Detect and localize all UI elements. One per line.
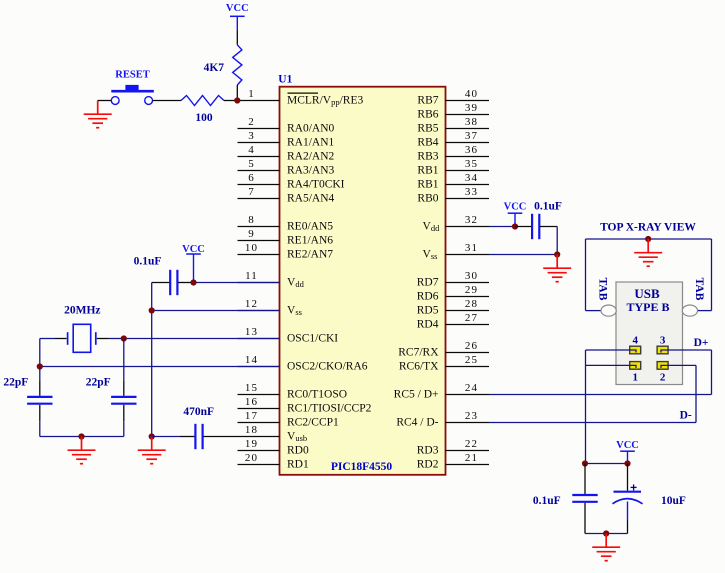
svg-text:RC6/TX: RC6/TX	[399, 361, 439, 373]
svg-text:RB7: RB7	[417, 95, 438, 107]
USB pad pin 3	[657, 346, 668, 354]
svg-text:4: 4	[632, 335, 638, 347]
svg-text:RA2/AN2: RA2/AN2	[287, 151, 335, 163]
wire crystal right to node OSC1	[109, 338, 124, 340]
wire pin 25 stub	[446, 366, 490, 368]
wire pin 20 stub	[238, 464, 280, 466]
wire pin 31 stub	[446, 254, 490, 256]
svg-text:RA5/AN4: RA5/AN4	[287, 193, 335, 205]
svg-text:20MHz: 20MHz	[64, 305, 100, 317]
wire node OSC1 to pin 13	[124, 338, 280, 340]
svg-text:RC7/RX: RC7/RX	[398, 347, 439, 359]
wire crystal right pin	[97, 338, 109, 340]
wire corner to C 0.1uF	[152, 282, 170, 284]
svg-text:30: 30	[465, 270, 478, 282]
svg-text:16: 16	[245, 396, 258, 408]
svg-text:USB: USB	[634, 286, 660, 301]
svg-text:VCC: VCC	[616, 440, 639, 451]
pad wire hooks	[630, 350, 668, 368]
svg-text:RC1/TIOSI/CCP2: RC1/TIOSI/CCP2	[287, 403, 372, 415]
svg-text:8: 8	[248, 214, 255, 226]
svg-text:1: 1	[248, 88, 255, 100]
svg-text:9: 9	[248, 228, 255, 240]
wire R 100 to node MCLR	[224, 100, 238, 102]
svg-text:Vdd: Vdd	[287, 277, 305, 290]
wire crystal left	[40, 338, 55, 340]
svg-text:29: 29	[465, 284, 478, 296]
wire C1 bottom pin	[39, 405, 41, 421]
wire pin 17 stub	[238, 422, 280, 424]
IC U1 PIC18F4550 body	[280, 87, 446, 475]
wire C2 to ground rail	[123, 421, 125, 436]
junction shield ground	[645, 236, 651, 242]
wire pin 26 stub	[446, 352, 490, 354]
junction node OSC2	[37, 363, 43, 369]
wire pin 33 stub	[446, 198, 490, 200]
junction Vss rail ground	[149, 433, 155, 439]
wire corner down to Vss	[556, 227, 558, 255]
wire pin 31 Vss	[489, 254, 557, 256]
wire C 0.1uF top pin	[584, 464, 586, 495]
svg-text:OSC2/CKO/RA6: OSC2/CKO/RA6	[287, 361, 368, 373]
svg-text:RA0/AN0: RA0/AN0	[287, 123, 335, 135]
svg-text:3: 3	[248, 130, 255, 142]
svg-text:RC4 / D-: RC4 / D-	[396, 417, 438, 429]
wire pin 34 stub	[446, 184, 490, 186]
svg-text:RE1/AN6: RE1/AN6	[287, 235, 333, 247]
svg-text:RC2/CCP1: RC2/CCP1	[287, 417, 339, 429]
wire pin 29 stub	[446, 296, 490, 298]
ground (reset switch)	[84, 101, 112, 128]
wire C 470nF to pin 18 Vusb	[203, 436, 237, 438]
junction node MCLR pin 1	[234, 97, 240, 103]
wire pin 37 stub	[446, 142, 490, 144]
svg-text:RB4: RB4	[417, 137, 438, 149]
wire pin 9 stub	[238, 240, 280, 242]
svg-text:4: 4	[248, 144, 255, 156]
svg-text:RB1: RB1	[417, 165, 438, 177]
svg-text:1: 1	[632, 371, 638, 383]
svg-text:22pF: 22pF	[86, 376, 111, 388]
svg-text:40: 40	[465, 88, 478, 100]
TAB oval left	[601, 305, 616, 316]
ground (USB shield)	[634, 239, 662, 266]
wire pin 32 to VCC node	[489, 226, 515, 228]
svg-text:D+: D+	[694, 337, 709, 349]
svg-text:Vdd: Vdd	[423, 221, 441, 234]
wire pin 19 stub	[238, 450, 280, 452]
wire pin 1 stub	[238, 100, 280, 102]
wire crystal left pin	[55, 338, 67, 340]
svg-text:RB1: RB1	[417, 179, 438, 191]
wire pin 35 stub	[446, 170, 490, 172]
wire net D+ to pad 3	[668, 349, 712, 351]
wire net D- vertical	[695, 365, 697, 422]
svg-text:27: 27	[465, 312, 478, 324]
svg-text:RB6: RB6	[417, 109, 438, 121]
svg-text:20: 20	[245, 452, 258, 464]
svg-text:4K7: 4K7	[204, 62, 225, 74]
svg-text:37: 37	[465, 130, 478, 142]
wire C2 bottom pin	[123, 405, 125, 421]
svg-text:Vss: Vss	[423, 249, 438, 262]
svg-text:RB5: RB5	[417, 123, 438, 135]
wire C2 top pin	[123, 380, 125, 396]
ground (Vss rail)	[138, 437, 166, 464]
wire C to corner	[540, 226, 557, 228]
junction node OSC1	[121, 335, 127, 341]
wire Vss rail to C 470nF	[152, 436, 180, 438]
svg-text:2: 2	[660, 371, 666, 383]
junction Vss pin31	[554, 251, 560, 257]
wire net D+ horizontal	[489, 394, 712, 396]
resistor R 100	[181, 96, 224, 106]
svg-text:RC0/T1OSO: RC0/T1OSO	[287, 389, 347, 401]
wire pin 38 stub	[446, 128, 490, 130]
svg-text:TAB: TAB	[693, 278, 705, 301]
svg-text:RD5: RD5	[417, 305, 439, 317]
svg-text:VCC: VCC	[226, 3, 249, 14]
plus sign of 10uF	[631, 484, 637, 490]
svg-text:U1: U1	[278, 74, 292, 86]
junction VCC rail left	[582, 460, 588, 466]
wire pin 6 stub	[238, 184, 280, 186]
wire pin 40 stub	[446, 100, 490, 102]
svg-text:32: 32	[465, 214, 478, 226]
svg-text:TOP X-RAY VIEW: TOP X-RAY VIEW	[600, 222, 696, 234]
svg-text:RA1/AN1: RA1/AN1	[287, 137, 335, 149]
wire pin 10 stub	[238, 254, 280, 256]
wire C1 to ground rail	[39, 421, 41, 436]
svg-text:RD2: RD2	[417, 459, 439, 471]
wire pin 13 stub	[238, 338, 280, 340]
svg-text:15: 15	[245, 382, 258, 394]
MCLR overline	[288, 92, 319, 94]
resistor R 4K7	[233, 45, 242, 85]
svg-text:VCC: VCC	[182, 244, 205, 255]
svg-text:RE0/AN5: RE0/AN5	[287, 221, 333, 233]
ground (crystal)	[68, 437, 96, 464]
power flag VCC (pin 32)	[504, 202, 527, 227]
wire pad 1 to left rail	[586, 364, 630, 366]
wire C1 top pin	[39, 380, 41, 396]
svg-text:MCLR/Vpp/RE3: MCLR/Vpp/RE3	[287, 95, 363, 108]
svg-text:100: 100	[195, 112, 213, 124]
wire USB shield top	[586, 238, 712, 240]
USB connector J1 body	[616, 282, 683, 385]
svg-text:26: 26	[465, 340, 478, 352]
junction VCC/C/pin11	[190, 279, 196, 285]
wire VCC rail	[585, 463, 628, 465]
wire to left TAB	[586, 310, 602, 312]
wire pin 7 stub	[238, 198, 280, 200]
capacitor C 0.1uF (USB power)	[572, 495, 597, 502]
wire net D- horizontal	[489, 422, 696, 424]
power flag VCC (USB power)	[616, 440, 639, 463]
wire node OSC2 to pin 14	[40, 366, 280, 368]
svg-text:RB0: RB0	[417, 193, 438, 205]
svg-text:39: 39	[465, 102, 478, 114]
svg-text:RE2/AN7: RE2/AN7	[287, 249, 333, 261]
wire pin 8 stub	[238, 226, 280, 228]
svg-text:14: 14	[245, 354, 258, 366]
wire net D+ vertical	[711, 350, 713, 395]
wire pin 14 stub	[238, 366, 280, 368]
wire to right TAB	[697, 310, 712, 312]
svg-text:25: 25	[465, 354, 478, 366]
svg-text:RD4: RD4	[417, 319, 439, 331]
svg-text:18: 18	[245, 424, 258, 436]
crystal X1 20MHz	[68, 324, 96, 352]
TAB oval right	[682, 305, 697, 316]
wire OSC1 node down	[123, 339, 125, 381]
svg-text:34: 34	[465, 172, 478, 184]
capacitor C 0.1uF (pin 32)	[532, 214, 539, 239]
svg-text:0.1uF: 0.1uF	[534, 201, 562, 213]
svg-text:RD3: RD3	[417, 445, 439, 457]
svg-text:D-: D-	[680, 409, 692, 421]
wire pin 4 stub	[238, 156, 280, 158]
svg-text:17: 17	[245, 410, 258, 422]
svg-text:19: 19	[245, 438, 258, 450]
svg-text:TYPE B: TYPE B	[626, 300, 669, 314]
junction bottom ground	[603, 530, 609, 536]
wire to C 0.1uF	[515, 226, 532, 228]
wire left rail down to VCC rail	[585, 350, 587, 464]
svg-text:470nF: 470nF	[183, 406, 214, 418]
junction VCC pin32	[512, 223, 518, 229]
wire C 0.1uF bottom pin	[584, 503, 586, 534]
svg-text:11: 11	[245, 270, 258, 282]
svg-text:5: 5	[248, 158, 255, 170]
junction Vss rail pin12	[149, 307, 155, 313]
svg-text:21: 21	[465, 452, 478, 464]
svg-text:35: 35	[465, 158, 478, 170]
capacitor C 10uF electrolytic	[627, 464, 629, 491]
svg-text:24: 24	[465, 382, 478, 394]
wire net D- to pad 2	[668, 364, 696, 366]
wire pin 21 stub	[446, 464, 490, 466]
wire pin 30 stub	[446, 282, 490, 284]
ground (pin 31 Vss)	[543, 255, 571, 282]
wire pin 27 stub	[446, 324, 490, 326]
svg-text:0.1uF: 0.1uF	[533, 495, 561, 507]
wire pin 32 stub	[446, 226, 490, 228]
svg-text:RA4/T0CKI: RA4/T0CKI	[287, 179, 345, 191]
svg-text:OSC1/CKI: OSC1/CKI	[287, 333, 338, 345]
wire pin 16 stub	[238, 408, 280, 410]
wire pin 24 stub	[446, 394, 490, 396]
wire shield left	[585, 239, 587, 311]
svg-text:12: 12	[245, 298, 258, 310]
power flag VCC (pin 11)	[182, 244, 205, 283]
wire switch to R 100	[153, 100, 182, 102]
ground (USB power)	[592, 534, 620, 561]
wire VCC to R 4K7	[236, 30, 238, 44]
wire pin 3 stub	[238, 142, 280, 144]
power flag VCC (4K7 pull-up)	[226, 3, 249, 30]
wire vertical Vss rail	[151, 283, 153, 437]
svg-text:38: 38	[465, 116, 478, 128]
wire pin 12 stub	[238, 310, 280, 312]
wire C 470nF left pin	[180, 436, 195, 438]
svg-text:13: 13	[245, 326, 258, 338]
junction VCC rail right	[624, 460, 630, 466]
svg-text:10: 10	[245, 242, 258, 254]
svg-text:7: 7	[248, 186, 255, 198]
USB pad pin 2	[657, 362, 668, 370]
svg-text:VCC: VCC	[504, 202, 527, 213]
wire ground to switch	[98, 100, 112, 102]
capacitor C1 22pF	[27, 397, 52, 404]
USB pad pin 4	[630, 346, 641, 354]
wire pin 36 stub	[446, 156, 490, 158]
svg-text:RA3/AN3: RA3/AN3	[287, 165, 335, 177]
wire down to node OSC2	[39, 339, 41, 367]
wire ground rail bottom	[585, 533, 628, 535]
svg-text:RD1: RD1	[287, 459, 309, 471]
wire pin 22 stub	[446, 450, 490, 452]
svg-text:RC5 / D+: RC5 / D+	[394, 389, 439, 401]
wire 4K7 to node MCLR	[236, 85, 238, 101]
svg-text:10uF: 10uF	[661, 495, 686, 507]
svg-text:TAB: TAB	[597, 278, 609, 301]
svg-text:22pF: 22pF	[3, 376, 28, 388]
svg-text:31: 31	[465, 242, 478, 254]
svg-text:PIC18F4550: PIC18F4550	[331, 461, 393, 473]
svg-text:Vss: Vss	[287, 305, 302, 318]
svg-text:0.1uF: 0.1uF	[134, 255, 162, 267]
wire to pin 12 Vss	[152, 310, 280, 312]
capacitor C 0.1uF (Vdd pin11)	[170, 270, 177, 295]
svg-text:RD0: RD0	[287, 445, 309, 457]
USB pad pin 1	[630, 362, 641, 370]
svg-text:RD6: RD6	[417, 291, 439, 303]
svg-text:33: 33	[465, 186, 478, 198]
svg-text:6: 6	[248, 172, 255, 184]
svg-text:RB3: RB3	[417, 151, 438, 163]
wire VCC node to pin 11 Vdd	[194, 282, 280, 284]
svg-text:22: 22	[465, 438, 478, 450]
wire pin 28 stub	[446, 310, 490, 312]
capacitor C2 22pF	[111, 397, 136, 404]
junction crystal ground	[78, 433, 84, 439]
wire shield right	[711, 239, 713, 311]
wire pin 39 stub	[446, 114, 490, 116]
svg-text:RESET: RESET	[115, 70, 149, 81]
svg-text:23: 23	[465, 410, 478, 422]
svg-text:RD7: RD7	[417, 277, 439, 289]
wire pad 4 to left rail	[586, 349, 630, 351]
svg-text:36: 36	[465, 144, 478, 156]
wire pin 23 stub	[446, 422, 490, 424]
wire pin 2 stub	[238, 128, 280, 130]
push button RESET	[111, 91, 154, 104]
wire C 10uF bottom pin	[627, 521, 629, 534]
wire pin 18 stub	[238, 436, 280, 438]
wire crystal ground rail	[40, 436, 124, 438]
wire OSC2 node down	[39, 367, 41, 381]
svg-text:28: 28	[465, 298, 478, 310]
wire pin 5 stub	[238, 170, 280, 172]
svg-text:3: 3	[660, 335, 666, 347]
wire C to VCC node	[178, 282, 193, 284]
capacitor C 470nF	[195, 424, 202, 449]
wire pin 11 stub	[238, 282, 280, 284]
svg-text:2: 2	[248, 116, 255, 128]
svg-text:Vusb: Vusb	[287, 431, 307, 444]
wire pin 15 stub	[238, 394, 280, 396]
